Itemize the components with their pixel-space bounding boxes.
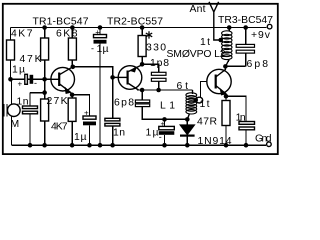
svg-text:6K8: 6K8	[56, 29, 78, 40]
svg-text:+: +	[161, 119, 166, 128]
wire emitter to 1n	[226, 96, 246, 121]
diode D 1N914	[186, 119, 188, 125]
wire 6K8 bottom to collector node	[71, 60, 73, 67]
svg-text:330: 330	[146, 43, 166, 54]
node TR2 emitter / 330 / 1p8	[140, 62, 145, 67]
svg-text:4K7: 4K7	[51, 121, 68, 132]
node 6K8 rail	[70, 25, 75, 30]
wire emitter to 1u bypass	[72, 95, 89, 116]
wire 6K8 top lead	[71, 28, 73, 39]
node antenna tap on L2	[218, 38, 223, 43]
transistor Q TR1 BC547	[51, 67, 75, 91]
svg-text:27K: 27K	[47, 96, 68, 107]
svg-text:-: -	[159, 132, 162, 142]
svg-text:1µ: 1µ	[97, 44, 109, 55]
svg-text:1t: 1t	[200, 37, 210, 48]
node 1n mic cap to ground rail	[28, 143, 33, 148]
resistor R 330	[138, 36, 146, 57]
wire TR2 collector line	[137, 89, 193, 91]
resistor R 6K8	[68, 38, 76, 60]
wire TR1 collector to TR2 base	[73, 67, 113, 78]
svg-text:1t: 1t	[200, 99, 210, 110]
wire collector to 6p8	[225, 65, 245, 67]
wire left drop from rail to 4K7	[10, 28, 12, 41]
node 27K top	[42, 90, 47, 95]
wire to 1p8	[142, 64, 159, 72]
node TR1 base	[42, 77, 47, 82]
wire 47K top lead	[44, 28, 46, 39]
svg-text:+: +	[18, 80, 23, 89]
node diode to ground rail	[185, 143, 190, 148]
svg-text:Gnd: Gnd	[255, 133, 272, 144]
svg-text:1n: 1n	[236, 113, 246, 124]
wire 27K bottom to rail	[44, 121, 46, 145]
wire 47K bottom to base node	[44, 60, 46, 99]
node mid wire 1u	[162, 117, 167, 122]
resistor R 47R	[222, 101, 230, 126]
svg-text:M: M	[11, 119, 20, 130]
node 1u bypass cap to ground rail	[87, 143, 92, 148]
wire +9V top rail	[11, 27, 267, 29]
svg-text:-: -	[91, 43, 94, 53]
capacitor C 1u electrolytic (supply decoupling)	[98, 25, 103, 30]
svg-text:+9v: +9v	[251, 30, 271, 41]
capacitor C 1p8 trimmer	[151, 72, 166, 75]
node diode top	[185, 117, 190, 122]
resistor R 4K7 (mic bias)	[7, 40, 15, 60]
microphone M	[4, 104, 7, 117]
svg-text:Ant: Ant	[190, 4, 206, 15]
antenna	[209, 2, 221, 40]
svg-text:6p8: 6p8	[247, 59, 269, 70]
capacitor C 1u electrolytic (mic coupling)	[25, 74, 28, 84]
capacitor C 1n (TR2 base)	[105, 118, 120, 121]
svg-text:TR1-BC547: TR1-BC547	[33, 17, 89, 28]
resistor R 4K7 (emitter)	[68, 98, 76, 121]
capacitor C 1n (base decoupling)	[29, 93, 31, 146]
node link to L1	[193, 98, 198, 103]
node 6p8 tap	[140, 88, 145, 93]
svg-text:SMØVPO L2: SMØVPO L2	[167, 49, 226, 60]
svg-text:-: -	[34, 78, 37, 88]
svg-text:47R: 47R	[197, 116, 217, 127]
wire ground rail	[12, 144, 267, 146]
wire base wire TR1	[11, 78, 52, 80]
wire mic bottom lead to ground rail	[11, 116, 13, 145]
terminal +9v	[267, 24, 272, 29]
label star 330 (select mark)	[146, 31, 152, 38]
node mic/cap junction	[8, 77, 13, 82]
node 1u mid cap to ground rail	[162, 143, 167, 148]
svg-text:6p8: 6p8	[114, 98, 134, 109]
transistor Q TR3 BC547	[207, 69, 231, 93]
capacitor C 6p8 (tank)	[243, 25, 248, 30]
svg-text:1µ: 1µ	[12, 65, 25, 76]
terminal Gnd	[267, 142, 272, 147]
svg-text:+: +	[84, 109, 89, 118]
capacitor C 1n (emitter)	[239, 122, 255, 125]
node 4K7 emitter resistor to ground rail	[70, 143, 75, 148]
node TR1 collector	[71, 65, 76, 70]
capacitor C 6p8 (to mid node)	[141, 90, 143, 100]
node 47R to ground rail	[224, 143, 229, 148]
transistor Q TR2 BC557	[118, 66, 142, 90]
node 1p8 bottom	[156, 88, 161, 93]
wire mic top lead	[11, 79, 13, 104]
capacitor C 1u electrolytic (emitter bypass)	[83, 116, 96, 119]
svg-text:TR3-BC547: TR3-BC547	[218, 15, 273, 26]
inductor L2	[227, 25, 232, 30]
svg-text:47K: 47K	[20, 54, 42, 65]
svg-text:1µ: 1µ	[146, 128, 159, 139]
node 1n emitter cap to ground rail	[244, 143, 249, 148]
node TR1 emitter	[70, 93, 75, 98]
resistor R 27K	[41, 99, 49, 121]
capacitor C 1u electrolytic (mid)	[164, 119, 166, 126]
border frame	[3, 4, 278, 154]
svg-text:1p8: 1p8	[150, 58, 169, 69]
svg-text:1n: 1n	[113, 127, 125, 138]
svg-text:1n: 1n	[17, 96, 29, 107]
inductor L1 6t	[192, 90, 194, 94]
svg-text:1N914: 1N914	[198, 136, 232, 147]
wire TR2 base down to 1n	[112, 77, 114, 118]
node TR3 emitter	[224, 94, 229, 99]
resistor R 47K	[41, 38, 49, 60]
svg-text:TR2-BC557: TR2-BC557	[107, 17, 163, 28]
node 47K rail	[42, 25, 47, 30]
svg-text:1µ: 1µ	[74, 132, 87, 143]
node 27K to ground rail	[42, 143, 47, 148]
svg-text:+: +	[95, 28, 100, 37]
node 1n TR2 base cap to ground rail	[110, 143, 115, 148]
node TR3 collector	[223, 64, 228, 69]
wire TR3 base / link 1t	[201, 82, 208, 98]
wire 4K7 to mic node	[10, 60, 12, 79]
node 1u decoupling cap to ground rail	[98, 143, 103, 148]
svg-text:4K7: 4K7	[11, 29, 33, 40]
node TR2 base	[110, 75, 115, 80]
